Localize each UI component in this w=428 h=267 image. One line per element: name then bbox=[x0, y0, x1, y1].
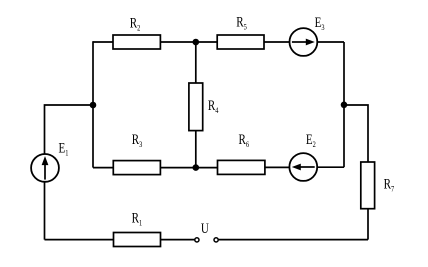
E2 arrow bbox=[300, 166, 315, 168]
node left (E1 branch) bbox=[90, 102, 97, 109]
terminal right bbox=[214, 238, 218, 242]
node top (R2/R5/R4) bbox=[193, 39, 200, 46]
wire R4 vertical bbox=[195, 42, 197, 168]
wire branch to R7 bbox=[344, 105, 368, 162]
svg-text:U: U bbox=[201, 221, 209, 237]
resistor R1 bbox=[114, 233, 161, 247]
wire right vertical x=344 bbox=[343, 42, 345, 167]
wire mid row right of E2 bbox=[317, 166, 344, 168]
wire mid row left (to R3) bbox=[93, 167, 113, 169]
wire branch to E1 bbox=[45, 105, 94, 240]
node mid (R3/R6/R4) bbox=[193, 164, 200, 171]
resistor R6 bbox=[218, 160, 265, 174]
resistor R4 bbox=[189, 83, 203, 131]
E3 arrow bbox=[292, 41, 307, 43]
E1 arrow bbox=[44, 163, 46, 179]
resistor R5 bbox=[217, 35, 264, 49]
resistor R2 bbox=[113, 35, 160, 49]
source E1 bbox=[31, 154, 59, 182]
node right (R7 branch) bbox=[341, 102, 348, 109]
source E2 bbox=[289, 153, 317, 181]
wire mid row (R3 to node to R6, R6 to E2) bbox=[160, 166, 289, 168]
source E3 bbox=[290, 28, 318, 56]
wire top row bbox=[93, 41, 344, 43]
wire right bottom vertical (R7 to bottom) bbox=[367, 209, 369, 240]
resistor R3 bbox=[113, 161, 160, 175]
wire left vertical x=93 bbox=[92, 41, 94, 167]
terminal left bbox=[195, 238, 199, 242]
resistor R7 bbox=[361, 162, 375, 209]
wire bottom row bbox=[45, 239, 369, 241]
